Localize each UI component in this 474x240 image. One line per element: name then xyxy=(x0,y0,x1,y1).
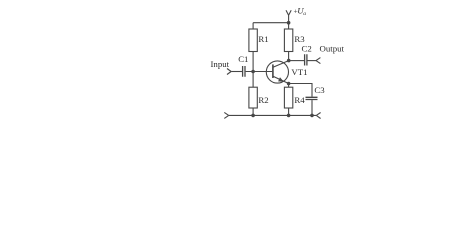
transistor VT1 base bar xyxy=(272,64,274,78)
wire: emitter node to C3 branch xyxy=(289,84,312,97)
capacitor C3 xyxy=(306,97,318,99)
capacitor C2 xyxy=(305,54,307,65)
wire: C1 to transistor base xyxy=(246,71,273,73)
label R3 xyxy=(294,34,305,44)
node: R2 ground dot xyxy=(251,114,255,118)
node: C3 ground dot xyxy=(310,114,314,118)
resistor R3 xyxy=(284,29,292,52)
node: R4 ground dot xyxy=(287,114,291,118)
wire: R1 bottom to base node xyxy=(252,52,254,72)
label R1 xyxy=(258,34,268,44)
node: collector junction dot xyxy=(287,59,291,63)
svg-text:a: a xyxy=(303,11,306,17)
svg-text:C3: C3 xyxy=(314,85,325,95)
wire: bottom ground rail xyxy=(229,114,317,116)
label Output xyxy=(320,43,345,53)
svg-text:VT1: VT1 xyxy=(291,67,307,77)
label R2 xyxy=(258,95,268,105)
wire: top rail down to R1 xyxy=(252,23,254,29)
svg-text:C2: C2 xyxy=(302,43,312,53)
supply terminal fork xyxy=(286,10,291,22)
wire: input terminal to C1 xyxy=(231,71,242,73)
resistor R1 xyxy=(249,29,257,52)
svg-text:Input: Input xyxy=(211,59,230,69)
label VT1 xyxy=(291,67,307,77)
transistor VT1 emitter line xyxy=(273,76,289,83)
svg-text:R1: R1 xyxy=(258,34,268,44)
wire: C3 bottom to ground rail xyxy=(311,100,313,115)
label Input xyxy=(211,59,230,69)
wire: R4 bottom to ground rail xyxy=(288,108,290,115)
wire: collector node to C2 xyxy=(289,60,304,62)
transistor VT1 circle xyxy=(266,61,288,83)
resistor R2 xyxy=(249,87,257,108)
svg-text:C1: C1 xyxy=(238,54,248,64)
wire: R3 bottom to collector node xyxy=(288,52,290,61)
wire: top rail xyxy=(253,22,289,24)
transistor VT1 emitter arrow xyxy=(278,77,284,82)
node: emitter junction dot xyxy=(287,82,291,86)
capacitor C1 xyxy=(243,66,245,77)
ground terminal left fork xyxy=(224,112,228,118)
node: base divider junction dot xyxy=(251,70,255,74)
svg-text:Output: Output xyxy=(320,43,345,53)
ground terminal right fork xyxy=(316,113,320,119)
wire: C2 to output terminal xyxy=(308,60,317,62)
input terminal fork xyxy=(227,69,231,75)
label C2 xyxy=(302,43,312,53)
wire: base node down to R2 xyxy=(252,72,254,88)
transistor VT1 collector line xyxy=(273,61,289,68)
svg-text:R4: R4 xyxy=(294,95,305,105)
label +Ua xyxy=(294,6,307,17)
label C3 xyxy=(314,85,325,95)
resistor R4 xyxy=(284,87,292,108)
label R4 xyxy=(294,95,305,105)
wire: emitter node to R4 xyxy=(288,84,290,88)
output terminal fork xyxy=(316,58,320,64)
wire: top rail down to R3 xyxy=(288,23,290,29)
wire: R2 bottom to ground rail xyxy=(252,108,254,115)
svg-text:R2: R2 xyxy=(258,95,268,105)
node: top rail junction dot xyxy=(287,21,291,25)
label C1 xyxy=(238,54,248,64)
